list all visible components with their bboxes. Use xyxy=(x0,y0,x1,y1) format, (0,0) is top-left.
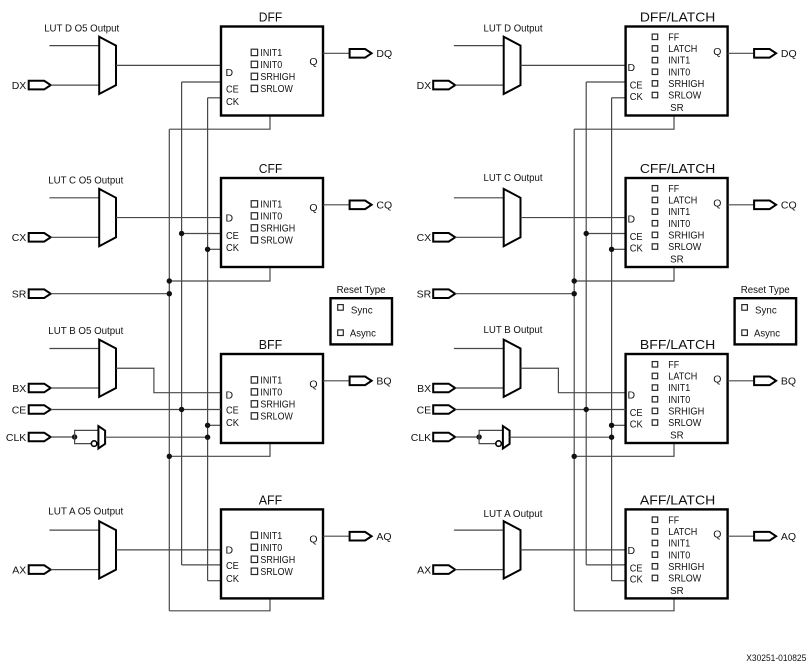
svg-text:CK: CK xyxy=(630,91,643,103)
svg-text:SRHIGH: SRHIGH xyxy=(668,79,704,90)
svg-text:INIT1: INIT1 xyxy=(260,48,282,59)
svg-text:LATCH: LATCH xyxy=(668,196,697,207)
svg-text:Q: Q xyxy=(713,197,721,209)
option checkbox FF of CFF/LATCH xyxy=(652,186,658,192)
svg-text:SRHIGH: SRHIGH xyxy=(260,224,295,235)
svg-text:SRHIGH: SRHIGH xyxy=(260,72,295,83)
svg-text:AQ: AQ xyxy=(781,531,796,543)
junction CE bus / CFF CE (left) xyxy=(179,231,184,236)
svg-text:AFF: AFF xyxy=(259,493,283,508)
output connector AQ (left) xyxy=(350,532,372,541)
svg-text:SRHIGH: SRHIGH xyxy=(260,555,295,566)
wire LUT C output stub (left) xyxy=(49,197,99,199)
input connector AX (right) xyxy=(433,565,455,574)
option checkbox INIT1 of CFF/LATCH xyxy=(652,209,658,215)
wire mux B output to BFF D (left) xyxy=(116,368,221,392)
wire BFF Q to output connector xyxy=(323,380,350,382)
wire CLK bus to DFF/LATCH CK pin xyxy=(612,97,626,99)
wire CLK bus to BFF CK pin xyxy=(208,424,221,426)
option checkbox LATCH of AFF/LATCH xyxy=(652,529,658,535)
wire DFF/LATCH SR pin to SR bus xyxy=(574,116,674,130)
svg-text:LUT D O5 Output: LUT D O5 Output xyxy=(44,24,119,35)
svg-text:SR: SR xyxy=(670,255,684,266)
svg-text:CLK: CLK xyxy=(6,432,26,444)
svg-text:INIT1: INIT1 xyxy=(260,376,282,387)
flip-flop BFF/LATCH xyxy=(626,354,728,443)
svg-text:D: D xyxy=(226,544,234,556)
svg-text:D: D xyxy=(628,390,636,402)
option checkbox FF of BFF/LATCH xyxy=(652,362,658,368)
wire CLK bus to CFF CK pin xyxy=(208,248,221,250)
wire CFF Q to output connector xyxy=(323,204,350,206)
wire LUT D output stub (left) xyxy=(49,45,99,47)
svg-text:CE: CE xyxy=(12,404,27,416)
option checkbox SRLOW of CFF/LATCH xyxy=(652,244,658,250)
option checkbox INIT1 of CFF xyxy=(251,201,257,207)
wire CE bus to AFF/LATCH CE pin xyxy=(586,564,625,566)
svg-text:DQ: DQ xyxy=(781,48,797,60)
svg-text:CK: CK xyxy=(226,573,239,585)
option checkbox INIT1 of BFF xyxy=(251,377,257,383)
svg-text:CX: CX xyxy=(12,232,27,244)
wire SR input to SR bus (right) xyxy=(455,293,574,295)
wire AFF/LATCH Q to output connector xyxy=(728,535,755,537)
option checkbox SRLOW of AFF xyxy=(251,568,257,574)
mux C (right) xyxy=(504,189,521,246)
option checkbox INIT0 of CFF/LATCH xyxy=(652,221,658,227)
input connector AX (left) xyxy=(29,565,51,574)
svg-text:Sync: Sync xyxy=(755,306,777,317)
svg-text:D: D xyxy=(226,67,234,79)
svg-text:SR: SR xyxy=(670,103,684,114)
option checkbox SRHIGH of DFF xyxy=(251,73,257,79)
option checkbox SRLOW of CFF xyxy=(251,237,257,243)
mux B (left) xyxy=(99,340,116,397)
wire AFF Q to output connector xyxy=(323,535,350,537)
svg-text:LATCH: LATCH xyxy=(668,527,697,538)
svg-text:Q: Q xyxy=(309,378,317,390)
option checkbox SRHIGH of AFF/LATCH xyxy=(652,564,658,570)
inversion bubble on clock mux (left) xyxy=(91,441,97,447)
svg-text:INIT1: INIT1 xyxy=(668,207,690,218)
svg-text:AX: AX xyxy=(12,564,26,576)
svg-text:SR: SR xyxy=(12,289,27,301)
wire DFF Q to output connector xyxy=(323,52,350,54)
wire CLK bus to AFF CK pin xyxy=(208,580,221,582)
svg-text:INIT1: INIT1 xyxy=(260,200,282,211)
flip-flop CFF xyxy=(221,178,323,267)
junction CE bus / CFF CE (right) xyxy=(584,231,589,236)
option checkbox SRLOW of BFF xyxy=(251,413,257,419)
junction SR bus / CFF SR (left) xyxy=(167,278,172,283)
option checkbox INIT0 of DFF xyxy=(251,61,257,67)
wire BX to mux (left) xyxy=(51,387,99,389)
svg-text:Q: Q xyxy=(309,534,317,546)
wire CFF/LATCH Q to output connector xyxy=(728,204,755,206)
wire BFF/LATCH Q to output connector xyxy=(728,380,755,382)
svg-text:D: D xyxy=(226,390,234,402)
wire CFF SR pin to SR bus xyxy=(169,267,270,281)
wire CE bus to DFF/LATCH CE pin xyxy=(586,81,625,83)
svg-text:LUT A Output: LUT A Output xyxy=(484,509,543,520)
svg-text:LUT C O5 Output: LUT C O5 Output xyxy=(48,176,123,187)
wire CE bus to CFF/LATCH CE pin xyxy=(586,233,625,235)
wire BFF/LATCH SR pin to SR bus xyxy=(574,443,674,456)
wire CFF/LATCH SR pin to SR bus xyxy=(574,267,674,281)
mux C (left) xyxy=(99,189,116,246)
option checkbox SRLOW of DFF xyxy=(251,85,257,91)
wire CLK bus to DFF CK pin xyxy=(208,97,221,99)
svg-text:LUT C Output: LUT C Output xyxy=(484,173,543,184)
input connector CX (right) xyxy=(433,233,455,242)
wire BX to mux (right) xyxy=(455,387,504,389)
svg-text:INIT0: INIT0 xyxy=(260,212,282,223)
checkbox Sync (right) xyxy=(742,305,748,311)
net CE bus (right) xyxy=(585,82,587,565)
svg-text:Async: Async xyxy=(350,328,376,339)
svg-text:AX: AX xyxy=(417,564,431,576)
svg-text:CE: CE xyxy=(630,231,643,243)
input connector DX (left) xyxy=(29,81,51,90)
reset-type box (right) xyxy=(735,298,797,344)
svg-text:LUT D Output: LUT D Output xyxy=(484,24,543,35)
svg-text:CE: CE xyxy=(630,407,643,419)
clock polarity mux (left) xyxy=(98,426,105,448)
svg-text:CK: CK xyxy=(226,96,239,108)
svg-text:CK: CK xyxy=(630,418,643,430)
svg-text:CK: CK xyxy=(630,574,643,586)
svg-text:CE: CE xyxy=(226,560,239,572)
input connector CX (left) xyxy=(29,233,51,242)
mux B (right) xyxy=(504,340,521,397)
option checkbox INIT0 of AFF/LATCH xyxy=(652,552,658,558)
svg-text:FF: FF xyxy=(668,360,679,371)
net SR bus (right) xyxy=(573,129,575,611)
input connector CE (left) xyxy=(29,405,51,414)
wire CLK true branch (left) xyxy=(75,430,99,437)
option checkbox INIT1 of AFF xyxy=(251,532,257,538)
svg-text:AFF/LATCH: AFF/LATCH xyxy=(640,493,715,508)
wire mux C output to CFF D (left) xyxy=(116,217,221,219)
wire CX to mux (right) xyxy=(455,236,504,238)
output connector CQ (right) xyxy=(754,201,776,210)
svg-text:LATCH: LATCH xyxy=(668,44,697,55)
svg-text:LUT B O5 Output: LUT B O5 Output xyxy=(48,326,123,337)
checkbox Sync (left) xyxy=(338,305,344,311)
option checkbox INIT0 of BFF xyxy=(251,389,257,395)
flip-flop DFF xyxy=(221,27,323,116)
svg-text:CE: CE xyxy=(630,562,643,574)
svg-text:SRHIGH: SRHIGH xyxy=(668,407,704,418)
option checkbox SRHIGH of CFF xyxy=(251,225,257,231)
svg-text:INIT0: INIT0 xyxy=(260,60,282,71)
option checkbox SRHIGH of BFF xyxy=(251,401,257,407)
svg-text:DX: DX xyxy=(417,80,432,92)
wire CLK bus to CFF/LATCH CK pin xyxy=(612,248,626,250)
wire CLK true branch (right) xyxy=(479,430,503,437)
svg-text:D: D xyxy=(226,212,234,224)
wire mux C output to CFF/LATCH D (right) xyxy=(521,217,626,219)
svg-text:SRLOW: SRLOW xyxy=(260,412,293,423)
wire clock mux output to CLK bus (right) xyxy=(510,436,612,438)
junction CLK bus / BFF CK (right) xyxy=(609,423,614,428)
option checkbox SRHIGH of DFF/LATCH xyxy=(652,81,658,87)
svg-text:DX: DX xyxy=(12,80,27,92)
wire DFF SR pin to SR bus xyxy=(169,116,270,130)
junction CE bus / CE input (right) xyxy=(584,407,589,412)
wire BFF SR pin to SR bus xyxy=(169,443,270,456)
input connector SR (right) xyxy=(433,289,455,298)
svg-text:DFF/LATCH: DFF/LATCH xyxy=(640,10,715,25)
flip-flop DFF/LATCH xyxy=(626,27,728,116)
option checkbox SRLOW of BFF/LATCH xyxy=(652,420,658,426)
svg-text:SRHIGH: SRHIGH xyxy=(668,231,704,242)
wire DFF/LATCH Q to output connector xyxy=(728,52,755,54)
svg-text:SRLOW: SRLOW xyxy=(668,242,702,253)
net CLK bus (left) xyxy=(207,98,209,581)
option checkbox INIT1 of DFF xyxy=(251,49,257,55)
option checkbox SRHIGH of AFF xyxy=(251,556,257,562)
svg-text:SRHIGH: SRHIGH xyxy=(668,562,704,573)
svg-text:SRLOW: SRLOW xyxy=(668,418,702,429)
wire CE bus to AFF CE pin xyxy=(182,564,221,566)
wire SR input to SR bus (left) xyxy=(51,293,170,295)
svg-text:SRLOW: SRLOW xyxy=(668,91,702,102)
svg-text:SR: SR xyxy=(670,431,684,442)
junction CLK split (left) xyxy=(72,434,77,439)
wire CLK input to junction (left) xyxy=(51,436,75,438)
junction SR bus / SR input (left) xyxy=(167,291,172,296)
junction CE bus / CE input (left) xyxy=(179,407,184,412)
option checkbox SRHIGH of CFF/LATCH xyxy=(652,232,658,238)
svg-text:Q: Q xyxy=(713,529,721,541)
svg-text:INIT0: INIT0 xyxy=(260,388,282,399)
junction SR bus / BFF SR (left) xyxy=(167,454,172,459)
option checkbox SRLOW of DFF/LATCH xyxy=(652,92,658,98)
junction CLK bus / clock mux output (left) xyxy=(205,435,210,440)
svg-text:AQ: AQ xyxy=(376,531,391,543)
net SR bus (left) xyxy=(168,129,170,611)
option checkbox SRLOW of AFF/LATCH xyxy=(652,575,658,581)
wire LUT D output stub (right) xyxy=(454,45,504,47)
option checkbox SRHIGH of BFF/LATCH xyxy=(652,408,658,414)
svg-text:CE: CE xyxy=(226,230,239,242)
flip-flop BFF xyxy=(221,354,323,443)
wire CE input to BFF CE pin (right) xyxy=(455,409,625,411)
wire mux A output to AFF/LATCH D (right) xyxy=(521,549,626,551)
wire AFF SR pin to SR bus xyxy=(169,598,270,610)
mux D (right) xyxy=(504,37,521,94)
svg-text:SRLOW: SRLOW xyxy=(260,567,293,578)
svg-text:CFF: CFF xyxy=(259,161,283,176)
svg-text:SR: SR xyxy=(670,586,684,597)
input connector DX (right) xyxy=(433,81,455,90)
svg-text:INIT1: INIT1 xyxy=(668,539,690,550)
svg-text:SRLOW: SRLOW xyxy=(260,84,293,95)
junction CLK split (right) xyxy=(476,434,481,439)
wire LUT C output stub (right) xyxy=(454,197,504,199)
input connector CLK (left) xyxy=(29,433,51,442)
wire mux D output to DFF/LATCH D (right) xyxy=(521,64,626,66)
wire CX to mux (left) xyxy=(51,236,99,238)
wire CLK input to junction (right) xyxy=(455,436,479,438)
svg-text:INIT1: INIT1 xyxy=(668,56,690,67)
option checkbox INIT0 of DFF/LATCH xyxy=(652,69,658,75)
svg-text:CFF/LATCH: CFF/LATCH xyxy=(640,161,715,176)
inversion bubble on clock mux (right) xyxy=(496,441,502,447)
svg-text:BX: BX xyxy=(417,383,431,395)
svg-text:INIT1: INIT1 xyxy=(668,383,690,394)
svg-text:BFF/LATCH: BFF/LATCH xyxy=(640,337,715,352)
net CLK bus (right) xyxy=(611,98,613,581)
wire CE input to BFF CE pin (left) xyxy=(51,409,221,411)
svg-text:FF: FF xyxy=(668,515,679,526)
option checkbox LATCH of DFF/LATCH xyxy=(652,46,658,52)
checkbox Async (left) xyxy=(338,330,344,336)
flip-flop AFF xyxy=(221,509,323,598)
svg-text:BQ: BQ xyxy=(376,376,391,388)
output connector BQ (right) xyxy=(754,377,776,386)
svg-text:Sync: Sync xyxy=(351,306,373,317)
svg-text:LATCH: LATCH xyxy=(668,372,697,383)
wire LUT B output stub (right) xyxy=(454,348,504,350)
input connector SR (left) xyxy=(29,289,51,298)
option checkbox INIT1 of BFF/LATCH xyxy=(652,385,658,391)
svg-text:Reset Type: Reset Type xyxy=(337,285,386,296)
input connector BX (right) xyxy=(433,384,455,393)
svg-text:BFF: BFF xyxy=(259,337,283,352)
svg-text:SRLOW: SRLOW xyxy=(668,574,702,585)
svg-text:FF: FF xyxy=(668,32,679,43)
svg-text:D: D xyxy=(628,545,636,557)
svg-text:CK: CK xyxy=(226,242,239,254)
input connector CLK (right) xyxy=(433,433,455,442)
svg-text:INIT0: INIT0 xyxy=(668,550,690,561)
output connector AQ (right) xyxy=(754,532,776,541)
svg-text:FF: FF xyxy=(668,184,679,195)
checkbox Async (right) xyxy=(742,330,748,336)
svg-text:INIT0: INIT0 xyxy=(668,219,690,230)
svg-text:INIT1: INIT1 xyxy=(260,531,282,542)
clock polarity mux (right) xyxy=(503,426,510,448)
option checkbox LATCH of BFF/LATCH xyxy=(652,373,658,379)
wire mux B output to BFF/LATCH D (right) xyxy=(521,368,626,392)
svg-text:D: D xyxy=(628,214,636,226)
svg-text:CE: CE xyxy=(226,84,239,96)
wire clock mux output to CLK bus (left) xyxy=(105,436,208,438)
svg-text:CLK: CLK xyxy=(411,432,431,444)
wire CLK inverted branch (left) xyxy=(75,437,92,444)
junction SR bus / SR input (right) xyxy=(572,291,577,296)
svg-text:SRHIGH: SRHIGH xyxy=(260,400,295,411)
svg-text:INIT0: INIT0 xyxy=(260,543,282,554)
option checkbox INIT1 of AFF/LATCH xyxy=(652,540,658,546)
wire CLK bus to BFF/LATCH CK pin xyxy=(612,424,626,426)
junction CLK bus / CFF CK (left) xyxy=(205,247,210,252)
svg-text:Q: Q xyxy=(309,202,317,214)
option checkbox INIT1 of DFF/LATCH xyxy=(652,57,658,63)
mux A (right) xyxy=(504,521,521,578)
wire LUT A output stub (right) xyxy=(454,529,504,531)
svg-text:DQ: DQ xyxy=(376,48,392,60)
svg-text:BQ: BQ xyxy=(781,376,796,388)
svg-text:INIT0: INIT0 xyxy=(668,395,690,406)
svg-text:Async: Async xyxy=(754,328,780,339)
wire LUT A output stub (left) xyxy=(49,529,99,531)
option checkbox INIT0 of BFF/LATCH xyxy=(652,397,658,403)
mux A (left) xyxy=(99,521,116,578)
svg-text:Q: Q xyxy=(713,46,721,58)
output connector DQ (left) xyxy=(350,49,372,58)
svg-text:LUT A O5 Output: LUT A O5 Output xyxy=(48,506,123,517)
svg-text:SRLOW: SRLOW xyxy=(260,236,293,247)
svg-text:CK: CK xyxy=(630,242,643,254)
svg-text:Q: Q xyxy=(713,373,721,385)
option checkbox INIT0 of AFF xyxy=(251,544,257,550)
svg-text:INIT0: INIT0 xyxy=(668,67,690,78)
svg-text:X30251-010825: X30251-010825 xyxy=(746,653,806,664)
output connector BQ (left) xyxy=(350,377,372,386)
wire CE bus to DFF CE pin xyxy=(182,81,221,83)
wire mux A output to AFF D (left) xyxy=(116,549,221,551)
junction CLK bus / BFF CK (left) xyxy=(205,423,210,428)
flip-flop AFF/LATCH xyxy=(626,509,728,598)
input connector CE (right) xyxy=(433,405,455,414)
junction CLK bus / CFF CK (right) xyxy=(609,247,614,252)
wire AX to mux (right) xyxy=(455,569,504,571)
option checkbox FF of DFF/LATCH xyxy=(652,34,658,40)
wire AX to mux (left) xyxy=(51,569,99,571)
output connector DQ (right) xyxy=(754,49,776,58)
output connector CQ (left) xyxy=(350,201,372,210)
svg-text:CQ: CQ xyxy=(781,200,797,212)
input connector BX (left) xyxy=(29,384,51,393)
wire mux D output to DFF D (left) xyxy=(116,64,221,66)
svg-text:Q: Q xyxy=(309,56,317,68)
wire DX to mux (left) xyxy=(51,84,99,86)
svg-text:DFF: DFF xyxy=(259,10,283,25)
svg-text:CK: CK xyxy=(226,417,239,429)
mux D (left) xyxy=(99,37,116,94)
option checkbox INIT0 of CFF xyxy=(251,213,257,219)
svg-text:LUT B Output: LUT B Output xyxy=(484,325,543,336)
svg-text:CX: CX xyxy=(417,232,432,244)
wire CE bus to CFF CE pin xyxy=(182,233,221,235)
svg-text:CE: CE xyxy=(417,404,432,416)
net CE bus (left) xyxy=(181,82,183,565)
wire DX to mux (right) xyxy=(455,84,504,86)
svg-text:CE: CE xyxy=(630,80,643,92)
wire AFF/LATCH SR pin to SR bus xyxy=(574,598,674,610)
junction CLK bus / clock mux output (right) xyxy=(609,435,614,440)
svg-text:CE: CE xyxy=(226,405,239,417)
junction SR bus / CFF SR (right) xyxy=(572,278,577,283)
junction SR bus / BFF SR (right) xyxy=(572,454,577,459)
wire LUT B output stub (left) xyxy=(49,348,99,350)
wire CLK inverted branch (right) xyxy=(479,437,496,444)
svg-text:Reset Type: Reset Type xyxy=(741,285,790,296)
svg-text:D: D xyxy=(628,62,636,74)
svg-text:CQ: CQ xyxy=(376,200,392,212)
svg-text:SR: SR xyxy=(417,289,432,301)
wire CLK bus to AFF/LATCH CK pin xyxy=(612,580,626,582)
option checkbox FF of AFF/LATCH xyxy=(652,517,658,523)
flip-flop CFF/LATCH xyxy=(626,178,728,267)
option checkbox LATCH of CFF/LATCH xyxy=(652,197,658,203)
svg-text:BX: BX xyxy=(12,383,26,395)
reset-type box (left) xyxy=(331,298,393,344)
